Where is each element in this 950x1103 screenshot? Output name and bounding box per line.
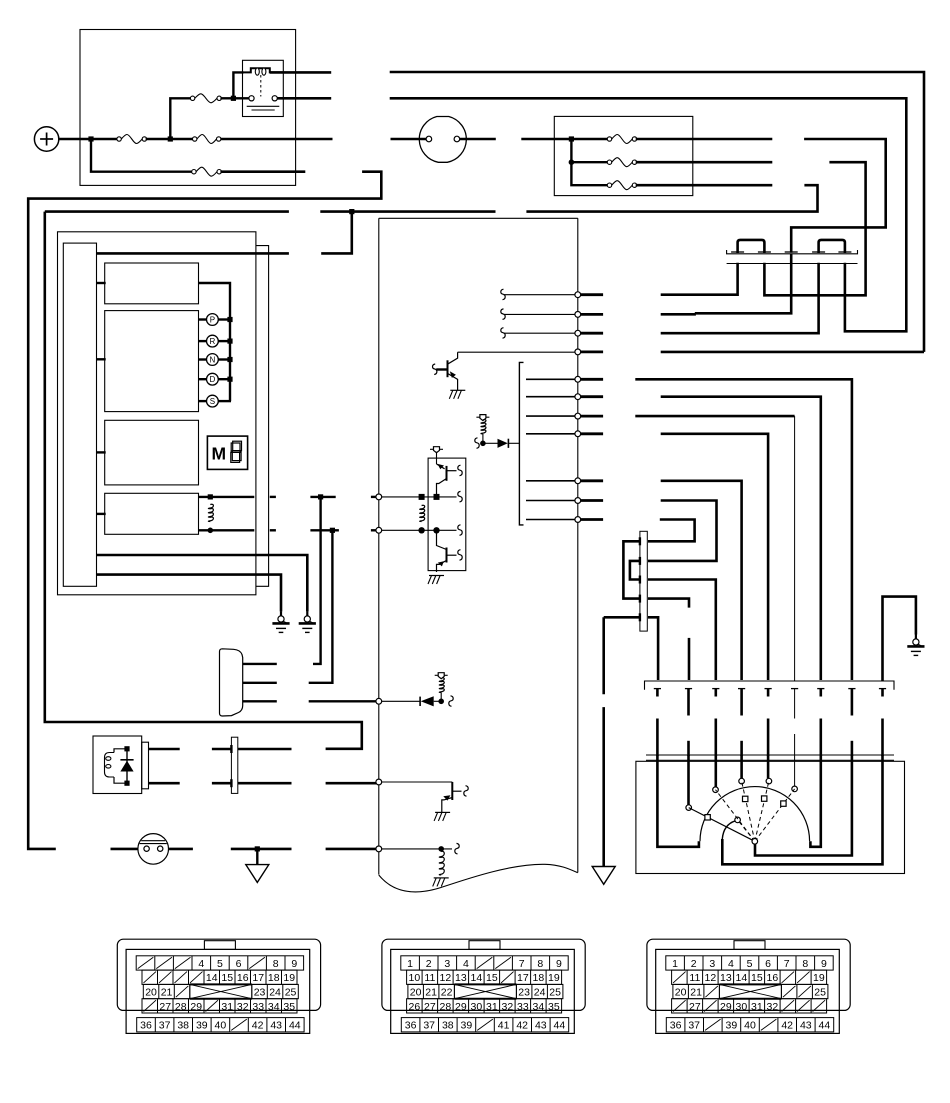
wire C4 pin x851.9 stub	[851, 689, 854, 716]
gauge box D	[105, 493, 199, 534]
wire C3 pin4 down a	[648, 599, 689, 608]
svg-text:37: 37	[688, 1020, 700, 1032]
ground hatch array	[428, 576, 444, 585]
wire row849 seg2	[111, 848, 139, 851]
svg-text:14: 14	[736, 972, 748, 984]
shift lever position lamp housing	[220, 649, 243, 716]
terminal PCM-right y294.7	[575, 292, 581, 298]
wire terminal stub y433.8	[581, 432, 603, 435]
wire row253 left	[97, 252, 289, 255]
wire C4 pin x820.8 stub	[819, 689, 822, 697]
arrow terminal A1	[246, 865, 269, 883]
switch wiper (solid)	[689, 808, 755, 842]
junction relay coil/contact	[231, 96, 236, 101]
wire C4 pin x688.5 seg	[687, 741, 690, 756]
svg-text:24: 24	[269, 987, 281, 999]
wire row416 drop thin	[794, 416, 796, 681]
svg-text:37: 37	[159, 1020, 171, 1032]
relay plunger dashed link	[260, 75, 262, 97]
wire C4 pin x741.6 seg	[740, 741, 743, 756]
wire R-D1 to junction	[482, 434, 484, 444]
svg-text:23: 23	[254, 987, 266, 999]
svg-text:R: R	[210, 337, 216, 346]
wire C4 pin x715.8 stub	[714, 689, 717, 697]
svg-text:12: 12	[705, 972, 717, 984]
wire row396 drop	[661, 397, 821, 680]
svg-text:9: 9	[821, 958, 827, 970]
ground G2	[272, 611, 289, 632]
svg-text:26: 26	[409, 1001, 421, 1013]
wire row162 out b	[764, 162, 865, 295]
svg-text:42: 42	[252, 1020, 264, 1032]
C3 staple inner	[630, 561, 640, 580]
switch arc contact	[743, 796, 748, 801]
relay contact blade	[247, 106, 280, 110]
wire box D row530	[199, 529, 255, 531]
connector view C-A (left)	[117, 939, 320, 1033]
fuse F2	[190, 94, 221, 103]
wire bracket to terminal y519.5	[526, 519, 576, 521]
resistor R-D1	[481, 420, 486, 434]
wire row139 jog to terminal	[661, 313, 696, 316]
svg-text:7: 7	[784, 958, 790, 970]
wire C4 pin x715.8 seg	[714, 719, 717, 757]
svg-text:13: 13	[455, 972, 467, 984]
switch dashed ray	[716, 790, 755, 842]
junction D1	[480, 441, 486, 447]
array Q-bottom	[437, 530, 457, 572]
wire T-array down	[436, 452, 438, 464]
svg-text:20: 20	[145, 987, 157, 999]
terminal PCM-left y848.9	[376, 846, 382, 852]
svg-text:3: 3	[444, 958, 450, 970]
pigtail array3	[458, 525, 462, 536]
svg-text:36: 36	[670, 1020, 682, 1032]
gauge inner frame	[63, 243, 96, 586]
switch contact J	[735, 817, 741, 823]
PCM top edge	[379, 217, 578, 219]
junction2	[168, 136, 173, 141]
terminal PCM-right y416.1	[575, 413, 581, 419]
wire PCM849 in	[381, 848, 452, 850]
pigtail Q1 base	[433, 364, 437, 375]
junction R849	[438, 846, 444, 852]
wire PCM782 in	[381, 781, 452, 783]
array Q-top	[437, 464, 457, 494]
PCM right edge	[577, 218, 579, 872]
gauge box B	[105, 311, 199, 412]
transmission range switch box	[636, 761, 905, 873]
svg-text:32: 32	[502, 1001, 514, 1013]
connector C4 bar	[645, 681, 895, 690]
wire row212 left	[45, 210, 289, 213]
wire sw I arc	[722, 821, 735, 839]
wire junction to arrow	[256, 849, 258, 865]
junction array1a	[419, 494, 425, 500]
indicator D wires	[199, 378, 232, 380]
svg-text:1: 1	[407, 958, 413, 970]
indicator R wires	[199, 340, 232, 342]
junction row849	[255, 846, 260, 851]
svg-text:44: 44	[819, 1020, 831, 1032]
wire fuse to contact	[235, 97, 249, 99]
wire C4 pin x657.4 stub	[656, 689, 659, 697]
wire C1 pin3 through	[790, 254, 793, 264]
wire box A to PRNDS bus	[199, 283, 231, 401]
svg-text:39: 39	[726, 1020, 738, 1032]
wire stub C	[97, 451, 106, 453]
svg-text:S: S	[210, 397, 215, 406]
connector C5 bar	[646, 755, 894, 760]
svg-text:20: 20	[675, 987, 687, 999]
wire sw B	[687, 755, 690, 805]
terminal PCM-right y351.9	[575, 349, 581, 355]
svg-text:25: 25	[814, 987, 826, 999]
wire stub D	[97, 513, 106, 515]
wire row749 seg2	[212, 748, 232, 751]
svg-text:28: 28	[440, 1001, 452, 1013]
svg-text:27: 27	[159, 1001, 171, 1013]
fuse F4	[192, 167, 222, 176]
wire junction to fuse F1	[91, 138, 118, 140]
wire C3 pin5 right	[648, 617, 658, 680]
wire C4 pin x688.5 stub	[687, 689, 690, 716]
battery B1 (+)	[34, 127, 58, 151]
junction row212	[349, 209, 354, 214]
svg-text:18: 18	[268, 972, 280, 984]
switch contact D	[739, 778, 745, 784]
wire terminal stub y480.8	[581, 479, 603, 482]
wire arrow drop a	[602, 617, 605, 694]
wire row294 to connector	[661, 263, 738, 295]
wire knob row3	[243, 700, 277, 702]
wire row497 seg	[310, 496, 335, 498]
junction array2b	[433, 527, 439, 533]
wire bracket to terminal y480.8	[526, 480, 576, 482]
junction diode bottom	[124, 781, 129, 786]
svg-text:28: 28	[175, 1001, 187, 1013]
terminal PCM-left y701.3	[376, 698, 382, 704]
wire knob row3 to PCM	[309, 700, 377, 702]
junction R	[227, 339, 232, 344]
wire C4 pin x741.6 stub	[740, 689, 743, 716]
svg-text:43: 43	[535, 1020, 547, 1032]
fuse box (under-hood) outline	[80, 30, 296, 186]
wire row352 to bus1	[661, 351, 924, 354]
svg-text:36: 36	[405, 1020, 417, 1032]
wire knob row1	[243, 663, 277, 665]
svg-text:25: 25	[549, 987, 561, 999]
svg-text:30: 30	[471, 1001, 483, 1013]
relay contact left	[249, 96, 254, 101]
connector C2 inline	[231, 737, 237, 793]
indicator P wires	[199, 318, 232, 320]
M8 seven-segment 8	[231, 441, 242, 462]
svg-text:21: 21	[425, 987, 437, 999]
wire sw C	[714, 755, 717, 787]
pigtail array2	[458, 491, 462, 502]
switch arc contact	[705, 815, 710, 820]
wire C4 pin x657.4 seg	[656, 719, 659, 757]
wire arrow drop b	[602, 707, 605, 866]
wire C4 pin x768.1 seg	[767, 719, 770, 757]
svg-text:37: 37	[423, 1020, 435, 1032]
wire row497 to PCM	[371, 496, 376, 498]
switch rotor arc	[700, 787, 810, 842]
svg-text:10: 10	[409, 972, 421, 984]
svg-text:15: 15	[221, 972, 233, 984]
fuse F5	[607, 135, 636, 144]
resistor cluster dimmer	[208, 504, 213, 521]
wire row212 mid	[320, 210, 495, 213]
svg-text:42: 42	[781, 1020, 793, 1032]
wire row530 to PCM	[371, 529, 376, 531]
wire row139 out b	[791, 139, 886, 253]
wire terminal stub y351.9	[581, 350, 603, 353]
interlock inner wires2	[114, 777, 127, 783]
pigtail D1	[475, 438, 479, 449]
connector C1 bar	[727, 250, 858, 264]
wire stub B	[97, 358, 106, 360]
wire sw I	[722, 755, 882, 864]
svg-text:16: 16	[237, 972, 249, 984]
wire sw A	[657, 755, 699, 847]
fuse F1	[117, 135, 147, 144]
svg-text:4: 4	[198, 958, 204, 970]
terminal PCM-right y379.3	[575, 376, 581, 382]
wire terminal stub y519.5	[581, 518, 603, 521]
ground hatch Q1	[449, 390, 465, 399]
wire knob row2	[243, 682, 277, 684]
svg-text:44: 44	[554, 1020, 566, 1032]
pigtail Q2 base	[464, 786, 468, 797]
wire shift-R drop	[309, 530, 333, 683]
terminal PCM-left y782	[376, 779, 382, 785]
svg-text:15: 15	[751, 972, 763, 984]
svg-text:24: 24	[534, 987, 546, 999]
wire row185 out b	[526, 185, 817, 211]
terminal PCM-right y314.4	[575, 312, 581, 318]
junction battery feed	[88, 136, 93, 141]
terminal PCM-right y333.2	[575, 330, 581, 336]
svg-text:8: 8	[273, 958, 279, 970]
wire C3 pin5 left	[604, 616, 640, 619]
connector C3 inline	[640, 531, 647, 631]
switch arc contact	[762, 796, 767, 801]
svg-text:33: 33	[517, 1001, 529, 1013]
wire D1 anode	[483, 442, 498, 444]
svg-text:6: 6	[765, 958, 771, 970]
wire array row497	[381, 496, 457, 498]
wire C4 pin9 ground	[883, 597, 916, 681]
wire terminal stub y294.7	[581, 293, 603, 296]
svg-text:18: 18	[533, 972, 545, 984]
svg-text:43: 43	[270, 1020, 282, 1032]
connector view C-C (right)	[647, 939, 850, 1033]
transistor Q1	[436, 352, 457, 390]
terminal T-array	[430, 447, 443, 453]
svg-text:14: 14	[471, 972, 483, 984]
wire bus2 (relay contact out)	[277, 97, 331, 100]
junction N	[227, 357, 232, 362]
switch arc contact	[781, 801, 786, 806]
wire C4 pin9 seg	[881, 719, 884, 757]
pigtail y333.2	[501, 328, 505, 339]
wire dash feed vertical	[571, 139, 608, 185]
ground G4	[907, 634, 924, 655]
wire row849 seg3	[168, 848, 193, 851]
terminal PCM-right y396.7	[575, 394, 581, 400]
svg-text:4: 4	[463, 958, 469, 970]
wire terminal stub y379.3	[581, 378, 603, 381]
svg-text:35: 35	[548, 1001, 560, 1013]
wire row433 drop	[661, 434, 768, 680]
svg-text:31: 31	[221, 1001, 233, 1013]
arrow terminal A2	[592, 867, 615, 885]
wire main feed row139 b	[391, 138, 427, 141]
svg-text:38: 38	[177, 1020, 189, 1032]
wire D2 up	[440, 693, 442, 702]
wire C4 pin x794.6 stub	[794, 689, 796, 719]
PCM bracket bus	[519, 362, 523, 525]
C3 staple outer	[623, 541, 640, 598]
indicator N wires	[199, 358, 232, 360]
wire C4 pin x794.6 seg	[794, 734, 796, 756]
wire terminal stub y416.1	[581, 415, 603, 418]
wire junction down to row253	[321, 212, 352, 254]
svg-text:2: 2	[691, 958, 697, 970]
pigtail R849	[455, 843, 459, 854]
wire row416 drop	[635, 415, 794, 418]
wire junction2 up to fuse F2	[170, 98, 191, 140]
svg-text:34: 34	[268, 1001, 280, 1013]
gauge assembly outline	[58, 232, 256, 595]
svg-text:25: 25	[285, 987, 297, 999]
svg-text:11: 11	[689, 972, 700, 984]
wire dash row2 stub	[571, 161, 608, 163]
interlock inner wires	[114, 749, 127, 753]
wire PCM701 in	[381, 700, 420, 702]
svg-text:P: P	[210, 315, 215, 324]
wire bracket to terminal y396.7	[526, 396, 576, 398]
svg-text:16: 16	[767, 972, 779, 984]
pigtail array1	[458, 465, 462, 476]
svg-text:9: 9	[291, 958, 297, 970]
ground hatch Q2	[434, 812, 450, 821]
wire cluster gnd2	[97, 575, 282, 612]
fuse F7	[607, 181, 636, 190]
wire row416 drop thin lower	[794, 756, 796, 786]
indicator lamp R	[207, 335, 219, 347]
diode D3	[120, 749, 133, 783]
svg-text:15: 15	[486, 972, 498, 984]
svg-text:29: 29	[190, 1001, 202, 1013]
wire battery to junction	[59, 138, 92, 140]
svg-text:19: 19	[548, 972, 560, 984]
svg-text:36: 36	[140, 1020, 152, 1032]
switch contact C	[713, 787, 719, 793]
wire row162 out a	[636, 161, 773, 164]
wire sw E	[767, 755, 770, 778]
ignition switch SW1	[419, 117, 466, 163]
wire C4 pin x768.1 stub	[767, 689, 770, 697]
terminal PCM-right y500.5	[575, 498, 581, 504]
svg-text:9: 9	[556, 958, 562, 970]
wire C4 pin9 stub	[881, 689, 884, 697]
svg-text:39: 39	[461, 1020, 473, 1032]
svg-text:8: 8	[802, 958, 808, 970]
wire pigtail input y333.2	[504, 332, 577, 334]
svg-text:41: 41	[498, 1020, 510, 1032]
wire pigtail input y294.7	[504, 294, 577, 296]
wire row749 seg3	[238, 748, 292, 751]
svg-text:20: 20	[410, 987, 422, 999]
junction row497	[318, 494, 323, 499]
svg-text:29: 29	[455, 1001, 467, 1013]
wire C4 pin x820.8 seg	[819, 719, 822, 757]
junction array1b	[434, 494, 440, 500]
switch contact E	[766, 778, 772, 784]
transistor Q2	[442, 782, 462, 812]
svg-text:13: 13	[720, 972, 732, 984]
wire dash row1 stub	[571, 138, 608, 140]
wire row172 to left edge	[28, 172, 381, 849]
svg-text:5: 5	[747, 958, 753, 970]
indicator lamp P	[207, 314, 219, 326]
svg-text:27: 27	[424, 1001, 436, 1013]
wire C3 pin3 down	[648, 580, 716, 681]
indicator lamp N	[207, 354, 219, 366]
wire row519 to C3	[648, 520, 695, 542]
svg-text:21: 21	[690, 987, 702, 999]
svg-text:33: 33	[252, 1001, 264, 1013]
terminal PCM-left y530.3	[376, 527, 382, 533]
svg-text:17: 17	[517, 972, 529, 984]
wire row849 seg4	[231, 848, 292, 851]
wire row783 to PCM	[326, 782, 377, 785]
svg-text:5: 5	[217, 958, 223, 970]
wire C3 pin4 down b	[688, 638, 691, 680]
resistor R-array	[420, 505, 425, 521]
svg-text:27: 27	[689, 1001, 701, 1013]
svg-text:11: 11	[424, 972, 435, 984]
wire interlock row1 out	[149, 748, 180, 751]
wire row530 stub	[270, 529, 276, 531]
relay contact right	[272, 96, 277, 101]
svg-text:23: 23	[518, 987, 530, 999]
svg-text:2: 2	[426, 958, 432, 970]
PCM torn bottom edge	[379, 864, 578, 892]
wire cluster gnd1	[97, 555, 308, 611]
wire main feed row139 a	[220, 138, 332, 141]
connector view C-B (middle)	[382, 939, 585, 1033]
diode D2	[420, 696, 441, 706]
svg-text:35: 35	[283, 1001, 295, 1013]
wire C4 pin x851.9 seg	[851, 741, 854, 756]
svg-text:40: 40	[215, 1020, 227, 1032]
svg-text:4: 4	[728, 958, 734, 970]
svg-text:19: 19	[283, 972, 295, 984]
svg-text:17: 17	[252, 972, 264, 984]
wire bus1 right run	[390, 72, 924, 352]
wire row783 seg2	[212, 782, 232, 785]
junction diode top	[124, 746, 129, 751]
svg-text:3: 3	[709, 958, 715, 970]
wire ignition out	[460, 138, 496, 141]
wire pigtail input y314.4	[504, 313, 577, 315]
pigtail y294.7	[501, 289, 505, 300]
wire row480 drop	[661, 481, 742, 680]
